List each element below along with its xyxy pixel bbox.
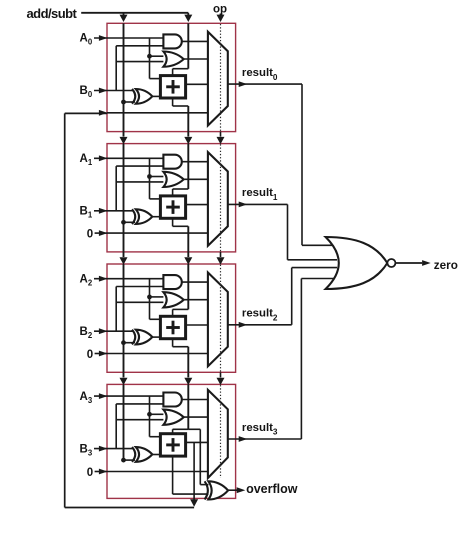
svg-text:op: op <box>213 3 227 15</box>
svg-text:add/subt: add/subt <box>27 6 78 21</box>
svg-text:0: 0 <box>87 467 93 479</box>
svg-text:0: 0 <box>87 349 93 361</box>
svg-text:zero: zero <box>434 259 458 272</box>
svg-text:0: 0 <box>87 229 93 241</box>
svg-text:overflow: overflow <box>246 482 298 496</box>
